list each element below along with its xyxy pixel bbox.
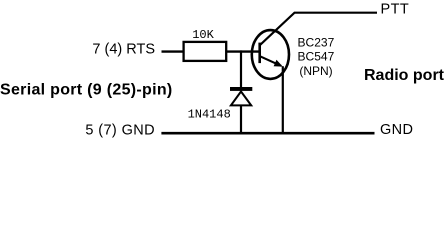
svg-text:(NPN): (NPN) bbox=[299, 64, 332, 78]
diode 1N4148 cathode bar bbox=[230, 87, 252, 91]
svg-text:10K: 10K bbox=[192, 28, 214, 42]
svg-text:1N4148: 1N4148 bbox=[188, 108, 231, 122]
wire: resistor to transistor base bbox=[226, 50, 259, 52]
ground bus wire bbox=[161, 132, 374, 135]
svg-text:Serial port (9 (25)-pin): Serial port (9 (25)-pin) bbox=[0, 81, 173, 98]
wire: RTS lead to resistor bbox=[162, 50, 185, 52]
label: transistor types BC237 / BC547 / (NPN) bbox=[298, 35, 335, 78]
resistor 10K body bbox=[184, 42, 227, 61]
wire: diode branch from base node down bbox=[240, 50, 242, 88]
svg-text:Radio port: Radio port bbox=[364, 67, 445, 84]
wire: diode anode to ground bus bbox=[240, 106, 242, 135]
transistor Q1 emitter lead bbox=[260, 56, 281, 66]
svg-text:GND: GND bbox=[380, 122, 413, 138]
transistor Q1 base bar bbox=[258, 43, 261, 64]
svg-text:PTT: PTT bbox=[381, 1, 410, 17]
svg-text:7 (4) RTS: 7 (4) RTS bbox=[92, 41, 155, 57]
transistor Q1 body circle bbox=[252, 30, 289, 79]
diode 1N4148 anode triangle bbox=[231, 92, 251, 106]
transistor Q1 emitter arrowhead bbox=[274, 60, 283, 67]
svg-text:BC547: BC547 bbox=[298, 50, 335, 64]
transistor Q1 collector lead and PTT wire bbox=[260, 13, 377, 46]
svg-text:5 (7) GND: 5 (7) GND bbox=[85, 123, 155, 139]
svg-text:BC237: BC237 bbox=[298, 35, 335, 49]
wire: emitter to ground bus bbox=[282, 66, 284, 134]
